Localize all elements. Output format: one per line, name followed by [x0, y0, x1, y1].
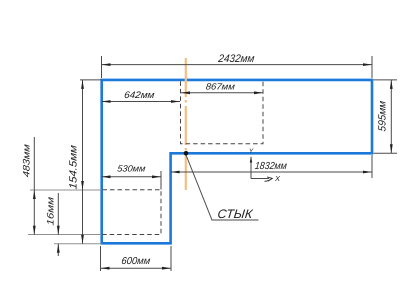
dimension 483mm left [33, 137, 35, 235]
svg-text:483мм: 483мм [22, 143, 33, 178]
joint dot [184, 151, 189, 156]
extension line left at cutout bottom level [28, 234, 102, 236]
extension line top-left for 154.5mm [80, 79, 102, 81]
cutout bottom: dashed rectangle 530mm [103, 190, 162, 235]
svg-text:867мм: 867мм [205, 82, 236, 92]
dimension 1832mm [171, 155, 372, 178]
outline: L-shaped countertop, blue [102, 80, 372, 243]
svg-text:Y: Y [249, 148, 254, 155]
UCS icon Y axis [250, 157, 252, 179]
dimension 595mm right [374, 80, 398, 153]
dimension 530mm [102, 171, 162, 190]
svg-text:642мм: 642мм [124, 90, 156, 101]
cutout top: dashed rectangle 867mm [181, 81, 264, 143]
dimension 600mm bottom [101, 246, 172, 271]
svg-text:16мм: 16мм [46, 196, 57, 226]
extension line left at cutout top level [30, 189, 102, 191]
centerline: joint axis, orange dash-dot [185, 58, 187, 190]
svg-text:154.5мм: 154.5мм [68, 144, 80, 190]
dimension 867mm [181, 92, 263, 94]
svg-text:2432мм: 2432мм [217, 53, 256, 65]
leader line to STYK label [186, 155, 259, 220]
dimension 154.5mm left [82, 80, 84, 244]
svg-text:X: X [274, 174, 281, 183]
svg-text:530мм: 530мм [117, 164, 147, 174]
dimension 642mm [102, 101, 181, 103]
extension line left at bottom edge level [54, 243, 102, 245]
UCS icon X axis [251, 178, 269, 180]
svg-text:СТЫК: СТЫК [217, 207, 254, 221]
dimension 2432mm top [102, 56, 373, 78]
svg-text:595мм: 595мм [377, 100, 389, 132]
svg-text:1832мм: 1832мм [254, 161, 287, 172]
svg-text:600мм: 600мм [121, 256, 151, 267]
dimension 16mm left, outside arrows [57, 193, 59, 256]
